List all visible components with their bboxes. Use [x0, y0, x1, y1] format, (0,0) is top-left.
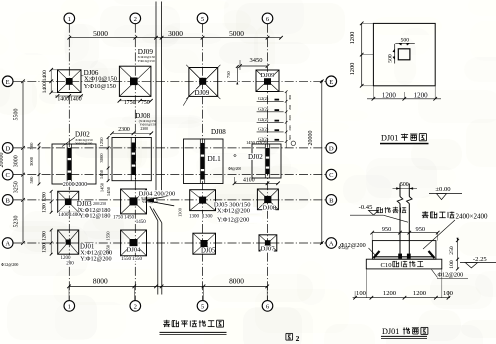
- svg-text:300: 300: [288, 135, 292, 140]
- svg-text:D: D: [5, 146, 10, 153]
- svg-text:DL1: DL1: [208, 155, 222, 163]
- svg-text:Y:Φ10@150: Y:Φ10@150: [84, 83, 116, 90]
- svg-text:1200: 1200: [414, 91, 429, 99]
- svg-text:1750: 1750: [124, 100, 136, 106]
- svg-text:1400: 1400: [58, 212, 69, 218]
- svg-text:2400×2400: 2400×2400: [456, 212, 488, 220]
- svg-text:Y:Φ12@180: Y:Φ12@180: [79, 212, 110, 219]
- svg-text:DJ07: DJ07: [261, 246, 276, 253]
- svg-text:E: E: [329, 79, 333, 86]
- svg-text:Φ12@200: Φ12@200: [340, 242, 366, 249]
- svg-text:1450: 1450: [124, 216, 135, 221]
- svg-text:3000: 3000: [14, 155, 20, 167]
- svg-text:1250: 1250: [99, 137, 104, 147]
- svg-text:20000: 20000: [0, 153, 5, 168]
- svg-text:DJ05: DJ05: [201, 247, 216, 254]
- svg-text:G2(2): G2(2): [258, 117, 269, 122]
- svg-text:750: 750: [141, 100, 150, 106]
- svg-text:Y:Φ10@150: Y:Φ10@150: [140, 122, 157, 126]
- svg-text:Φ12@200: Φ12@200: [1, 262, 18, 267]
- svg-text:-2.25: -2.25: [473, 256, 487, 263]
- svg-text:1200: 1200: [349, 32, 356, 45]
- svg-text:200: 200: [66, 261, 74, 266]
- svg-text:C: C: [329, 172, 334, 179]
- svg-text:Y:Φ12@200: Y:Φ12@200: [80, 256, 111, 263]
- svg-text:2000: 2000: [63, 182, 75, 188]
- svg-text:Φ8@200: Φ8@200: [228, 167, 241, 171]
- svg-text:DJ01: DJ01: [381, 133, 398, 142]
- svg-text:1550: 1550: [106, 231, 111, 241]
- svg-text:5230: 5230: [14, 216, 20, 228]
- svg-text:3000: 3000: [99, 153, 104, 163]
- svg-text:750: 750: [226, 71, 231, 79]
- svg-text:1200: 1200: [382, 91, 397, 99]
- svg-text:500: 500: [29, 176, 34, 184]
- svg-text:1750: 1750: [113, 216, 124, 221]
- svg-text:1550: 1550: [132, 257, 143, 262]
- svg-text:C10: C10: [381, 262, 393, 269]
- svg-text:Y:Φ10@200: Y:Φ10@200: [75, 141, 92, 145]
- svg-text:1200: 1200: [61, 256, 72, 261]
- svg-text:1200: 1200: [43, 192, 48, 202]
- svg-text:2000: 2000: [76, 182, 88, 188]
- svg-text:1300: 1300: [189, 215, 200, 220]
- svg-text:1550: 1550: [106, 244, 111, 254]
- svg-text:G2(2): G2(2): [258, 96, 269, 101]
- svg-text:1450: 1450: [100, 182, 105, 192]
- svg-text:500: 500: [29, 142, 34, 150]
- svg-text:200: 200: [288, 125, 292, 130]
- svg-text:DJ01: DJ01: [382, 327, 399, 336]
- svg-text:8000: 8000: [229, 276, 244, 285]
- svg-text:1550: 1550: [121, 257, 132, 262]
- svg-text:2300: 2300: [140, 127, 148, 131]
- svg-text:5000: 5000: [229, 29, 244, 38]
- svg-text:1200: 1200: [413, 290, 427, 297]
- svg-text:E: E: [6, 79, 10, 86]
- svg-text:Φ: Φ: [234, 153, 237, 158]
- svg-text:G2(2): G2(2): [258, 127, 269, 132]
- svg-text:20000: 20000: [308, 131, 314, 146]
- svg-text:500: 500: [387, 54, 393, 63]
- svg-text:4100: 4100: [243, 178, 255, 184]
- svg-text:1: 1: [68, 304, 71, 311]
- svg-text:950: 950: [416, 226, 426, 233]
- svg-text:100: 100: [449, 260, 455, 269]
- svg-text:Y:Φ10@150: Y:Φ10@150: [138, 59, 155, 63]
- svg-text:100: 100: [356, 290, 367, 297]
- svg-text:DJ09: DJ09: [195, 89, 210, 97]
- svg-text:Y:Φ10@150: Y:Φ10@150: [142, 200, 159, 204]
- svg-text:3250: 3250: [14, 181, 20, 193]
- svg-text:-0.45: -0.45: [359, 204, 373, 211]
- svg-text:1200: 1200: [43, 243, 48, 253]
- svg-text:G2(2): G2(2): [258, 107, 269, 112]
- svg-text:1400: 1400: [42, 70, 48, 81]
- svg-text:Y:Φ12@200: Y:Φ12@200: [217, 217, 249, 224]
- svg-text:1400: 1400: [70, 212, 81, 218]
- svg-text:2: 2: [134, 16, 137, 23]
- svg-text:1200: 1200: [43, 231, 48, 241]
- svg-text:Φ12@200: Φ12@200: [438, 271, 464, 278]
- svg-text:200/250: 200/250: [93, 201, 106, 206]
- svg-text:250: 250: [449, 246, 455, 255]
- svg-text:X:Φ10@150: X:Φ10@150: [84, 75, 117, 82]
- svg-text:1300: 1300: [178, 207, 183, 217]
- svg-text:A: A: [5, 241, 10, 248]
- svg-text:1: 1: [68, 16, 71, 23]
- svg-text:1450: 1450: [99, 169, 104, 179]
- svg-text:±0.00: ±0.00: [435, 186, 451, 193]
- svg-text:5000: 5000: [93, 29, 108, 38]
- svg-text:DJ04: DJ04: [127, 246, 142, 253]
- svg-text:1200: 1200: [43, 203, 48, 213]
- svg-text:A: A: [329, 241, 334, 248]
- svg-text:500: 500: [400, 182, 409, 188]
- svg-text:2: 2: [296, 334, 300, 343]
- svg-text:2300: 2300: [118, 127, 130, 133]
- svg-text:1450: 1450: [106, 186, 111, 196]
- svg-text:3000: 3000: [29, 156, 34, 166]
- svg-text:1200: 1200: [349, 63, 356, 76]
- svg-text:300: 300: [288, 95, 292, 100]
- svg-text:950: 950: [382, 226, 392, 233]
- svg-text:1400: 1400: [42, 82, 48, 93]
- svg-text:1300: 1300: [203, 215, 214, 220]
- svg-text:200: 200: [288, 105, 292, 110]
- svg-text:DJ08: DJ08: [262, 205, 277, 212]
- svg-text:DJ09: DJ09: [261, 72, 276, 79]
- svg-text:DJ08: DJ08: [211, 128, 226, 136]
- svg-text:100: 100: [443, 290, 454, 297]
- svg-text:X:Φ12@200: X:Φ12@200: [217, 207, 250, 214]
- svg-text:5500: 5500: [14, 109, 20, 121]
- svg-text:B: B: [5, 198, 10, 205]
- svg-text:8000: 8000: [93, 276, 108, 285]
- svg-text:C: C: [5, 172, 10, 179]
- svg-text:1200: 1200: [383, 290, 397, 297]
- svg-text:300: 300: [288, 115, 292, 120]
- svg-text:3450: 3450: [250, 57, 263, 64]
- svg-text:3000: 3000: [168, 29, 183, 38]
- svg-text:1450: 1450: [136, 220, 147, 225]
- svg-text:D: D: [329, 146, 334, 153]
- svg-text:2: 2: [134, 304, 137, 311]
- svg-text:B: B: [329, 198, 334, 205]
- svg-text:DJ02: DJ02: [248, 153, 263, 161]
- svg-text:500: 500: [401, 37, 410, 43]
